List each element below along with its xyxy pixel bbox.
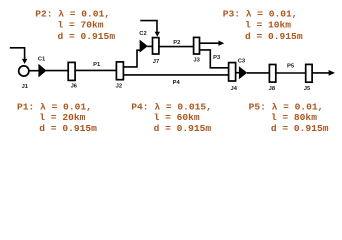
wire J1 to C1	[29, 70, 39, 72]
wire C2 to J7	[147, 45, 152, 47]
svg-text:P4: λ = 0.015,: P4: λ = 0.015,	[131, 101, 212, 112]
amplifier C2	[140, 40, 148, 53]
svg-text:l = 10km: l = 10km	[245, 20, 291, 31]
svg-text:d = 0.915m: d = 0.915m	[39, 123, 97, 134]
amplifier C3	[239, 66, 247, 79]
svg-text:C3: C3	[238, 58, 246, 64]
wire C3 to J8	[247, 72, 269, 74]
amplifier C1	[38, 64, 46, 78]
svg-text:P2: P2	[173, 40, 180, 46]
svg-text:P5: P5	[287, 63, 295, 69]
svg-text:J3: J3	[193, 58, 200, 64]
wire J4 to C3	[235, 72, 240, 74]
wire P5	[276, 72, 306, 74]
svg-text:d = 0.915m: d = 0.915m	[245, 31, 303, 42]
output arrow from J3	[200, 42, 220, 44]
svg-text:P3: P3	[213, 55, 221, 61]
svg-text:P3: λ = 0.01,: P3: λ = 0.01,	[223, 8, 298, 19]
svg-text:l = 60km: l = 60km	[154, 112, 200, 123]
node J1 (source circle)	[19, 66, 29, 76]
wire P3 elbow J3 to J4	[200, 50, 229, 68]
svg-text:P4: P4	[173, 80, 181, 86]
svg-text:P1: P1	[93, 62, 101, 68]
wire P4 long	[123, 74, 228, 76]
svg-text:l = 20km: l = 20km	[39, 112, 85, 123]
junction J4	[229, 63, 236, 81]
input arrow into J1	[10, 48, 25, 60]
svg-text:J5: J5	[304, 86, 311, 92]
svg-text:C1: C1	[38, 57, 46, 63]
wire C1 to J6	[46, 70, 68, 72]
junction J8	[269, 65, 275, 83]
svg-text:P2: λ = 0.01,: P2: λ = 0.01,	[35, 8, 110, 19]
svg-text:l = 70km: l = 70km	[58, 20, 104, 31]
svg-text:J2: J2	[116, 84, 122, 90]
svg-text:J8: J8	[269, 86, 276, 92]
svg-text:P1: λ = 0.01,: P1: λ = 0.01,	[17, 101, 92, 112]
svg-text:J6: J6	[71, 83, 78, 89]
input arrow into J7	[140, 21, 157, 32]
svg-text:J1: J1	[22, 84, 29, 90]
wire P2	[159, 46, 194, 48]
svg-text:C2: C2	[139, 31, 146, 37]
svg-text:l = 80km: l = 80km	[271, 112, 317, 123]
svg-text:P5: λ = 0.01,: P5: λ = 0.01,	[249, 101, 324, 112]
svg-text:J4: J4	[230, 86, 237, 92]
junction J2	[116, 62, 123, 80]
svg-text:d = 0.915m: d = 0.915m	[154, 123, 212, 134]
svg-text:d = 0.915m: d = 0.915m	[58, 31, 116, 42]
svg-text:d = 0.915m: d = 0.915m	[271, 123, 329, 134]
wire J2 up to C2	[123, 50, 139, 67]
wire P1	[75, 69, 116, 71]
junction J3	[194, 37, 200, 54]
svg-text:J7: J7	[153, 59, 159, 65]
output arrow from J5	[312, 72, 329, 74]
junction J7	[153, 38, 159, 54]
junction J5	[306, 64, 312, 82]
junction J6	[68, 62, 75, 80]
